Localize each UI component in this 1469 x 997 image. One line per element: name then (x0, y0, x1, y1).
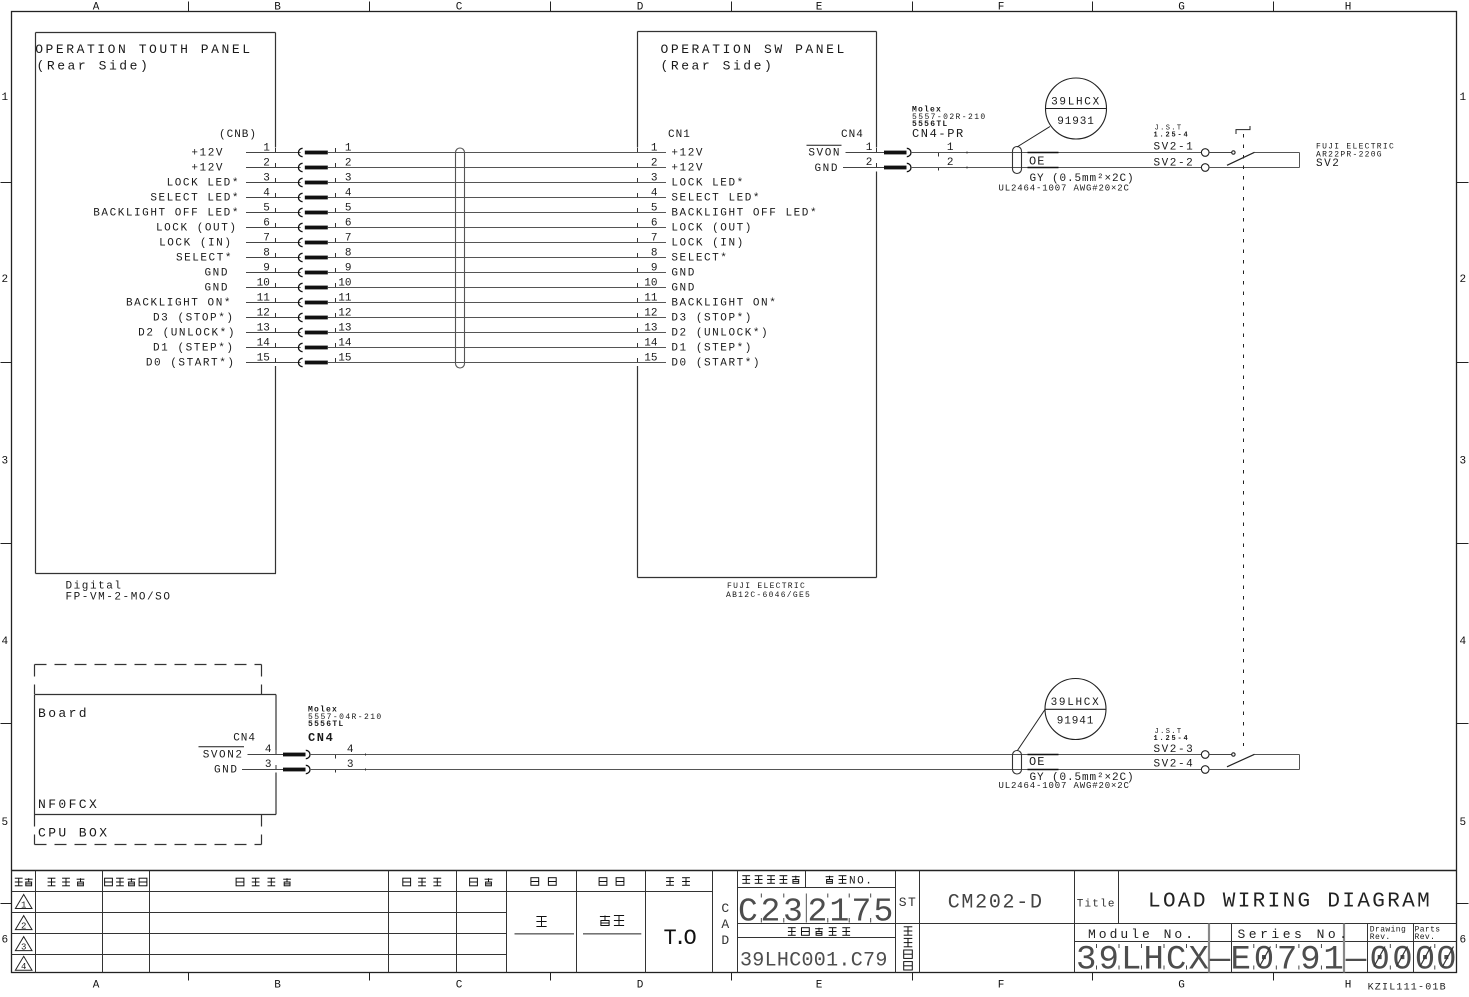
svg-text:+12V: +12V (671, 148, 704, 160)
svg-text:G: G (1178, 2, 1185, 14)
svg-text:B: B (274, 980, 281, 992)
label: FUJI ELECTRIC AR22PR-220G SV2 (1316, 142, 1395, 170)
svg-text:+12V: +12V (191, 163, 224, 175)
revision triangles 1-4 (15, 895, 32, 911)
svg-text:3: 3 (651, 173, 658, 185)
svg-text:4: 4 (265, 744, 272, 756)
svg-text:FP-VM-2-MO/SO: FP-VM-2-MO/SO (66, 592, 172, 604)
wire pin 8 SELECT*: CNB to CN1 with crimp splice (176, 248, 729, 265)
wire pin 10 GND: CNB to CN1 with crimp splice (205, 278, 696, 295)
svg-text:A: A (93, 2, 100, 14)
svg-text:12: 12 (644, 308, 657, 320)
switch SV2 contact (bottom, SV2-3/SV2-4) (1201, 751, 1299, 774)
svg-text:NF0FCX: NF0FCX (38, 797, 99, 812)
svg-text:5: 5 (1459, 817, 1466, 829)
svg-text:9: 9 (345, 263, 352, 275)
svg-text:F: F (998, 2, 1005, 14)
svg-text:CPU BOX: CPU BOX (38, 826, 109, 841)
svg-text:D0 (START*): D0 (START*) (671, 358, 761, 370)
svg-text:2: 2 (345, 158, 352, 170)
wire pin 13 D2 (UNLOCK*): CNB to CN1 with crimp splice (138, 323, 769, 340)
balloon: part ref 39LHCX / 91941 (1018, 679, 1107, 751)
form number KZIL111-01B (1368, 983, 1447, 994)
svg-text:OE: OE (1029, 755, 1045, 769)
svg-text:SELECT*: SELECT* (176, 253, 233, 265)
svg-text:D2 (UNLOCK*): D2 (UNLOCK*) (138, 328, 236, 340)
wire pin 14 D1 (STEP*): CNB to CN1 with crimp splice (153, 338, 753, 355)
cable marker oval (bottom cable) (1013, 751, 1022, 775)
svg-text:15: 15 (257, 353, 270, 365)
svg-text:SELECT LED*: SELECT LED* (150, 193, 240, 205)
switch SV2 contact (top, SV2-1/SV2-2) (1201, 149, 1299, 172)
designer signature: Tsutsumi (515, 917, 575, 934)
svg-text:SVON2: SVON2 (203, 750, 244, 762)
dept code / control no headers (742, 876, 873, 888)
management number C23 2175 (738, 894, 896, 931)
svg-text:FUJI ELECTRIC: FUJI ELECTRIC (727, 582, 806, 591)
svg-text:(Rear Side): (Rear Side) (37, 59, 151, 74)
svg-text:6: 6 (1, 935, 8, 947)
svg-text:NO.: NO. (849, 876, 873, 888)
svg-text:14: 14 (644, 338, 658, 350)
svg-text:2: 2 (1, 274, 8, 286)
svg-text:10: 10 (338, 278, 351, 290)
svg-text:Series No.: Series No. (1237, 927, 1350, 942)
svg-text:12: 12 (338, 308, 351, 320)
svg-text:5: 5 (651, 203, 658, 215)
approver signature: T.O (663, 926, 696, 951)
svg-text:6: 6 (345, 218, 352, 230)
svg-text:3: 3 (21, 943, 26, 953)
connector CN4 label (Board) (233, 733, 256, 745)
checker signature: Hideshima (583, 916, 641, 934)
svg-text:11: 11 (338, 293, 352, 305)
svg-text:D2 (UNLOCK*): D2 (UNLOCK*) (671, 328, 769, 340)
svg-text:BACKLIGHT ON*: BACKLIGHT ON* (126, 298, 232, 310)
svg-text:CN4: CN4 (308, 731, 334, 745)
svg-text:SV2-1: SV2-1 (1154, 142, 1195, 154)
svg-text:E0791: E0791 (1231, 942, 1347, 980)
CAD column (721, 901, 729, 948)
svg-text:6: 6 (1459, 935, 1466, 947)
net GND: Board CN4 pin3 wire to SV2-4 (214, 759, 1201, 777)
svg-text:C: C (721, 901, 729, 916)
svg-text:C23: C23 (738, 894, 806, 931)
svg-text:—: — (1209, 942, 1231, 980)
svg-text:GND: GND (671, 283, 695, 295)
connector CN1 label (668, 129, 691, 141)
svg-text:14: 14 (257, 338, 271, 350)
svg-text:SELECT*: SELECT* (671, 253, 728, 265)
svg-text:1: 1 (1, 92, 8, 104)
svg-text:SV2-4: SV2-4 (1154, 759, 1195, 771)
svg-text:D: D (721, 933, 729, 948)
wire pin 2 +12V: CNB to CN1 with crimp splice (191, 158, 704, 175)
svg-text:00: 00 (1370, 942, 1415, 980)
svg-text:39LHC001.C79: 39LHC001.C79 (740, 950, 888, 973)
svg-text:4: 4 (651, 188, 658, 200)
svg-text:2: 2 (947, 157, 954, 169)
svg-text:3: 3 (345, 173, 352, 185)
svg-text:LOCK (OUT): LOCK (OUT) (671, 223, 753, 235)
drawing number 39LHCX-E0791-0000 (1076, 942, 1457, 980)
svg-text:Module No.: Module No. (1088, 927, 1196, 942)
svg-text:GND: GND (214, 765, 238, 777)
wire pin 11 BACKLIGHT ON*: CNB to CN1 with crimp splice (126, 293, 777, 310)
svg-text:10: 10 (257, 278, 270, 290)
svg-text:7: 7 (345, 233, 352, 245)
svg-text:00: 00 (1415, 942, 1458, 980)
panel: OPERATION TOUTH PANEL (rear side) enclosure (35, 33, 276, 574)
svg-text:4: 4 (263, 188, 270, 200)
svg-text:7: 7 (263, 233, 270, 245)
svg-text:3: 3 (1459, 456, 1466, 468)
svg-text:15: 15 (644, 353, 657, 365)
svg-text:LOCK (OUT): LOCK (OUT) (156, 223, 238, 235)
svg-text:F: F (998, 980, 1005, 992)
svg-text:5: 5 (263, 203, 270, 215)
svg-text:D: D (637, 2, 644, 14)
connector CNB label (219, 129, 257, 141)
svg-text:C: C (456, 980, 463, 992)
svg-text:D: D (637, 980, 644, 992)
svg-text:CN4: CN4 (233, 733, 256, 745)
svg-text:Title: Title (1077, 899, 1116, 911)
svg-text:BACKLIGHT OFF LED*: BACKLIGHT OFF LED* (671, 208, 818, 220)
svg-text:14: 14 (338, 338, 352, 350)
svg-text:OPERATION SW PANEL: OPERATION SW PANEL (661, 42, 847, 57)
svg-text:CM202-D: CM202-D (948, 892, 1044, 915)
svg-text:E: E (816, 2, 823, 14)
wire pin 4 SELECT LED*: CNB to CN1 with crimp splice (150, 188, 761, 205)
wire pin 9 GND: CNB to CN1 with crimp splice (205, 263, 696, 280)
svg-text:6: 6 (651, 218, 658, 230)
svg-text:—: — (1345, 942, 1367, 980)
net GND: CN4 pin2 wire to SV2-2 (815, 157, 1202, 175)
connector CN4 Molex 5557-04R-210 / 5556TL labels (Board) (308, 706, 383, 746)
svg-text:39LHCX: 39LHCX (1051, 97, 1101, 109)
svg-text:G: G (1178, 980, 1185, 992)
wire pin 15 D0 (START*): CNB to CN1 with crimp splice (146, 353, 761, 370)
label: FUJI ELECTRIC AB12C-6046/GE5 (726, 582, 811, 600)
svg-text:SV2: SV2 (1316, 158, 1340, 170)
terminal labels J.S.T 1.25-4 SV2-3 SV2-4 (1154, 728, 1195, 771)
svg-text:1: 1 (345, 143, 352, 155)
svg-text:LOAD WIRING DIAGRAM: LOAD WIRING DIAGRAM (1148, 891, 1432, 914)
title block grid (12, 871, 1457, 973)
svg-text:BACKLIGHT ON*: BACKLIGHT ON* (671, 298, 777, 310)
svg-text:T.O: T.O (663, 926, 696, 951)
svg-text:D3 (STOP*): D3 (STOP*) (671, 313, 753, 325)
svg-text:B: B (274, 2, 281, 14)
terminal labels J.S.T 1.25-4 SV2-1 SV2-2 (1154, 125, 1195, 170)
svg-text:LOCK (IN): LOCK (IN) (159, 238, 232, 250)
svg-text:CN1: CN1 (668, 129, 691, 141)
svg-text:2: 2 (651, 158, 658, 170)
cable marker oval (CN4-PR cable) (1013, 147, 1022, 174)
svg-text:A: A (93, 980, 100, 992)
svg-text:Board: Board (38, 706, 89, 721)
board: NF0FCX Board box (35, 695, 277, 815)
svg-text:6: 6 (263, 218, 270, 230)
svg-text:BACKLIGHT OFF LED*: BACKLIGHT OFF LED* (93, 208, 240, 220)
svg-text:H: H (1345, 2, 1352, 14)
connector CN4-PR Molex 5557-02R-210 / 5556TL labels (912, 106, 987, 142)
svg-text:39LHCX: 39LHCX (1051, 697, 1101, 709)
svg-text:91931: 91931 (1057, 116, 1095, 128)
svg-text:1: 1 (21, 900, 26, 910)
svg-text:D1 (STEP*): D1 (STEP*) (671, 343, 753, 355)
svg-text:KZIL111-01B: KZIL111-01B (1368, 983, 1447, 993)
svg-text:UL2464-1007 AWG#20×2C: UL2464-1007 AWG#20×2C (999, 184, 1130, 194)
svg-text:1: 1 (263, 143, 270, 155)
wire pin 6 LOCK (OUT): CNB to CN1 with crimp splice (156, 218, 753, 235)
svg-text:13: 13 (257, 323, 270, 335)
svg-text:1.25-4: 1.25-4 (1154, 132, 1190, 140)
svg-text:+12V: +12V (671, 163, 704, 175)
svg-text:(CNB): (CNB) (219, 129, 257, 141)
svg-text:4: 4 (345, 188, 352, 200)
svg-text:2: 2 (866, 157, 873, 169)
svg-text:1: 1 (947, 142, 954, 154)
mechanical coupling dashed link SV2 (1243, 134, 1245, 746)
svg-text:2: 2 (1459, 274, 1466, 286)
svg-text:11: 11 (257, 293, 271, 305)
svg-text:2: 2 (263, 158, 270, 170)
connector CN4 label (SW panel) (841, 129, 864, 141)
svg-text:2: 2 (21, 922, 26, 932)
svg-text:13: 13 (338, 323, 351, 335)
svg-text:D1 (STEP*): D1 (STEP*) (153, 343, 235, 355)
svg-text:C: C (456, 2, 463, 14)
svg-text:4: 4 (347, 744, 354, 756)
svg-text:UL2464-1007 AWG#20×2C: UL2464-1007 AWG#20×2C (999, 781, 1130, 791)
svg-text:13: 13 (644, 323, 657, 335)
ST cell + koji-kiban vertical label (899, 895, 918, 970)
svg-text:4: 4 (1459, 636, 1466, 648)
svg-text:GND: GND (205, 283, 229, 295)
drawing title LOAD WIRING DIAGRAM (1148, 891, 1432, 914)
svg-text:1: 1 (866, 142, 873, 154)
enclosure: CPU BOX (dashed) (35, 665, 262, 845)
svg-text:LOCK (IN): LOCK (IN) (671, 238, 744, 250)
svg-text:3: 3 (265, 759, 272, 771)
svg-text:LOCK LED*: LOCK LED* (671, 178, 744, 190)
svg-text:E: E (816, 980, 823, 992)
svg-text:1: 1 (1459, 92, 1466, 104)
svg-text:11: 11 (644, 293, 658, 305)
wire pin 1 +12V: CNB to CN1 with crimp splice (191, 143, 704, 160)
svg-text:CN4: CN4 (841, 129, 864, 141)
svg-text:OPERATION TOUTH PANEL: OPERATION TOUTH PANEL (35, 42, 252, 57)
svg-text:SV2-3: SV2-3 (1154, 744, 1195, 756)
wire pin 12 D3 (STOP*): CNB to CN1 with crimp splice (153, 308, 753, 325)
svg-text:4: 4 (1, 636, 8, 648)
svg-text:9: 9 (651, 263, 658, 275)
svg-text:5: 5 (1, 817, 8, 829)
revision table headers (fugo/nengappi/kaitei) (15, 878, 690, 886)
svg-text:15: 15 (338, 353, 351, 365)
svg-text:(Rear Side): (Rear Side) (661, 59, 775, 74)
svg-text:AB12C-6046/GE5: AB12C-6046/GE5 (726, 591, 811, 600)
actuator symbol above SV2 (1236, 126, 1250, 134)
Module No. / Series No. / Drawing Rev / Parts Rev headers (1088, 926, 1441, 943)
balloon: part ref 39LHCX / 91931 (1017, 78, 1107, 147)
svg-text:3: 3 (347, 759, 354, 771)
svg-text:SV2-2: SV2-2 (1154, 157, 1195, 169)
wire pin 5 BACKLIGHT OFF LED*: CNB to CN1 with crimp splice (93, 203, 818, 220)
svg-text:8: 8 (263, 248, 270, 260)
svg-text:5556TL: 5556TL (308, 720, 345, 729)
svg-text:91941: 91941 (1057, 716, 1095, 728)
svg-text:9: 9 (263, 263, 270, 275)
net SVON: CN4 pin1 wire to SV2-1 (807, 142, 1202, 160)
Title cell (1077, 899, 1116, 911)
svg-text:4: 4 (21, 962, 26, 972)
svg-text:A: A (721, 917, 729, 932)
svg-text:3: 3 (263, 173, 270, 185)
cable jacket label OE / GY / UL2464 (bottom) (999, 755, 1135, 792)
svg-text:CN4-PR: CN4-PR (912, 127, 965, 141)
svg-text:H: H (1345, 980, 1352, 992)
svg-text:GND: GND (671, 268, 695, 280)
file name header + 39LHC001.C79 (740, 928, 888, 973)
svg-text:SELECT LED*: SELECT LED* (671, 193, 761, 205)
svg-text:5: 5 (345, 203, 352, 215)
machine number CM202-D (948, 892, 1044, 915)
svg-text:OE: OE (1029, 155, 1045, 169)
svg-text:8: 8 (651, 248, 658, 260)
wire pin 7 LOCK (IN): CNB to CN1 with crimp splice (159, 233, 745, 250)
svg-text:12: 12 (257, 308, 270, 320)
label: Digital FP-VM-2-MO/SO (66, 581, 172, 604)
svg-text:ST: ST (899, 895, 918, 910)
svg-text:D0 (START*): D0 (START*) (146, 358, 236, 370)
svg-text:3: 3 (1, 456, 8, 468)
svg-text:SVON: SVON (808, 148, 841, 160)
cable bundle marker (15-wire cable) (456, 148, 465, 368)
cable jacket label OE / GY (0.5mm2x2C) / UL2464-1007 AWG#20x2C (999, 153, 1135, 194)
svg-text:LOCK LED*: LOCK LED* (167, 178, 240, 190)
svg-text:2175: 2175 (808, 894, 896, 931)
svg-text:1: 1 (651, 143, 658, 155)
panel: OPERATION SW PANEL (rear side) enclosure (638, 32, 877, 578)
svg-text:7: 7 (651, 233, 658, 245)
svg-text:GND: GND (815, 163, 839, 175)
svg-text:10: 10 (644, 278, 657, 290)
svg-text:GND: GND (205, 268, 229, 280)
svg-text:1.25-4: 1.25-4 (1154, 735, 1190, 743)
wire pin 3 LOCK LED*: CNB to CN1 with crimp splice (167, 173, 745, 190)
svg-text:8: 8 (345, 248, 352, 260)
svg-text:+12V: +12V (191, 148, 224, 160)
net SVON2: Board CN4 pin4 wire to SV2-3 (199, 744, 1202, 762)
svg-text:D3 (STOP*): D3 (STOP*) (153, 313, 235, 325)
